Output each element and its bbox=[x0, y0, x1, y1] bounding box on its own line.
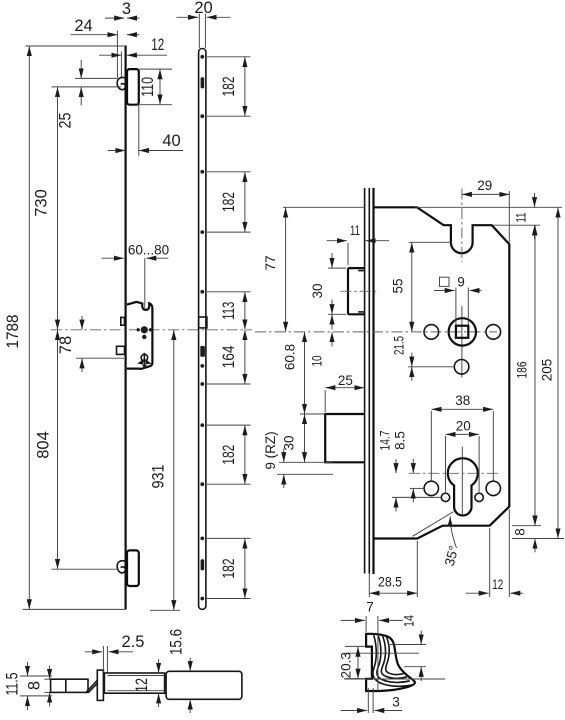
small hole left bbox=[441, 493, 449, 501]
dim 60...80 bbox=[102, 257, 124, 259]
rail top end line bbox=[25, 45, 124, 47]
bottom hook slot bbox=[201, 559, 205, 570]
svg-text:12: 12 bbox=[151, 36, 164, 54]
svg-text:20.3: 20.3 bbox=[339, 652, 354, 678]
latch slot bbox=[199, 317, 207, 328]
ornament wing left bbox=[137, 359, 143, 364]
top hook bolt curl bbox=[117, 77, 125, 89]
svg-text:182: 182 bbox=[220, 445, 238, 465]
dim 8 (outside arrows) bbox=[49, 666, 51, 680]
svg-text:40: 40 bbox=[162, 132, 180, 150]
svg-text:30: 30 bbox=[282, 435, 297, 450]
vertical centerline cylinder bbox=[461, 447, 463, 516]
dim 38 ext lines bbox=[430, 411, 432, 481]
dim 7 ext bbox=[365, 616, 367, 632]
dim 730 bbox=[57, 87, 59, 330]
svg-text:113: 113 bbox=[220, 302, 238, 320]
svg-text:29: 29 bbox=[477, 178, 492, 193]
screw dots bbox=[200, 55, 204, 59]
laminate curve 1 bbox=[373, 634, 413, 686]
dim 12 (outside arrows) bbox=[158, 659, 160, 673]
dim 38 bbox=[432, 408, 494, 410]
dim 110 bbox=[139, 68, 172, 70]
deadbolt tab on rail bbox=[117, 346, 125, 354]
dim 9 square bbox=[434, 290, 455, 292]
dim 182 no.4 bbox=[244, 539, 246, 599]
dim 3 bottom bbox=[341, 710, 367, 712]
dim 164 bbox=[244, 330, 246, 384]
rail bottom end line bbox=[23, 608, 126, 610]
vertical centerline cup bbox=[461, 189, 463, 263]
svg-text:730: 730 bbox=[33, 189, 51, 217]
svg-text:9: 9 bbox=[457, 275, 465, 290]
ref line top bbox=[20, 675, 52, 677]
svg-text:11.5: 11.5 bbox=[4, 673, 22, 696]
inner step line bbox=[344, 652, 419, 654]
top pocket bbox=[348, 268, 365, 314]
svg-text:25: 25 bbox=[57, 113, 75, 129]
dim 931 bbox=[150, 609, 180, 611]
dim 9 square ext lines bbox=[455, 288, 457, 326]
svg-text:186: 186 bbox=[515, 362, 530, 379]
dim 8.5 (outside arrows) bbox=[412, 459, 414, 473]
dim 113 bbox=[244, 292, 246, 330]
dim 78 bbox=[76, 357, 124, 359]
rail (side view main vertical line) bbox=[124, 46, 126, 610]
faceplate edge lines (3 vertical) bbox=[364, 188, 366, 574]
SECTION: front view faceplate bbox=[150, 0, 251, 610]
ref line bottom hook (804) bbox=[51, 568, 118, 570]
latch tab on rail bbox=[121, 317, 125, 325]
dim 20.3 (inside arrows) bbox=[357, 647, 359, 679]
dim 14.7 (outside arrows) bbox=[395, 459, 397, 473]
ornament tip bbox=[142, 365, 147, 368]
deadbolt slot bbox=[200, 346, 205, 357]
dim 205 bbox=[512, 538, 564, 540]
cylinder hole right bbox=[486, 481, 500, 495]
svg-text:14.7: 14.7 bbox=[378, 431, 393, 451]
svg-text:3: 3 bbox=[392, 695, 400, 710]
svg-text:15.6: 15.6 bbox=[168, 629, 186, 655]
dim 11 top pocket bbox=[327, 240, 347, 242]
bar block bbox=[166, 671, 242, 699]
dim 12 bottom ext lines bbox=[489, 528, 491, 597]
svg-text:12: 12 bbox=[133, 678, 151, 692]
svg-text:11: 11 bbox=[514, 213, 529, 223]
dim 14 ref lines bbox=[390, 644, 426, 646]
dim 10 bbox=[331, 300, 333, 315]
182 chain ext lines bbox=[207, 56, 251, 58]
faceplate outline (stadium) bbox=[199, 49, 206, 610]
dim 12 bbox=[99, 54, 121, 56]
dim 14 (outside arrows) bbox=[420, 631, 422, 645]
svg-text:30: 30 bbox=[310, 283, 325, 298]
dim 2.5 bbox=[85, 651, 102, 653]
dim 8 right (outside arrows) bbox=[534, 512, 536, 526]
ref line bottom bbox=[20, 695, 52, 697]
dim 25 bottom pocket bbox=[324, 390, 326, 412]
bottom hook bolt curl bbox=[117, 561, 125, 573]
ext notch plane right bbox=[492, 224, 540, 226]
svg-text:2.5: 2.5 bbox=[122, 633, 145, 651]
dim 186 bbox=[512, 525, 541, 527]
svg-text:20: 20 bbox=[456, 419, 471, 434]
follower bbox=[449, 318, 476, 345]
laminate curve 4 bbox=[386, 637, 405, 675]
dim 20 bbox=[177, 16, 199, 18]
svg-text:38: 38 bbox=[455, 393, 470, 408]
svg-text:10: 10 bbox=[310, 356, 325, 367]
bottom pocket bbox=[325, 414, 364, 462]
svg-text:205: 205 bbox=[540, 359, 555, 382]
dim 40 bbox=[138, 105, 140, 156]
svg-text:60.8: 60.8 bbox=[283, 344, 298, 370]
latch tail bbox=[51, 679, 88, 692]
svg-text:25: 25 bbox=[338, 373, 353, 388]
svg-text:3: 3 bbox=[122, 0, 131, 18]
dim 30 top pocket bbox=[328, 267, 346, 269]
svg-text:14: 14 bbox=[402, 615, 417, 627]
follower hole below bbox=[454, 360, 469, 375]
top hook slot bbox=[201, 77, 205, 88]
dim 7 bbox=[341, 619, 365, 621]
dim 28.5 bbox=[370, 592, 418, 594]
svg-text:931: 931 bbox=[150, 465, 168, 489]
follower dot bbox=[141, 326, 148, 333]
svg-text:8.5: 8.5 bbox=[392, 431, 407, 450]
dim 20 ext lines bbox=[445, 436, 447, 492]
square symbol for 9 bbox=[440, 277, 450, 286]
ornament circle bbox=[141, 354, 148, 361]
extension line for 12 bbox=[120, 52, 122, 79]
svg-text:55: 55 bbox=[390, 278, 405, 293]
cylinder hole left bbox=[424, 481, 438, 495]
follower hole left bbox=[424, 325, 439, 340]
dim 11.5 (outside arrows) bbox=[27, 662, 29, 676]
dim 60.8 bbox=[300, 413, 325, 415]
svg-text:28.5: 28.5 bbox=[378, 575, 402, 590]
latch cross-section outline bbox=[366, 634, 415, 691]
cylinder horizontal centerline bbox=[409, 472, 498, 474]
cylinder euro profile bbox=[448, 458, 478, 515]
svg-text:20: 20 bbox=[194, 0, 212, 17]
lower ref line bbox=[344, 678, 445, 680]
dim 182 no.3 bbox=[244, 425, 246, 484]
dim 20 bbox=[446, 433, 479, 435]
latch bevel lines bbox=[86, 680, 97, 692]
plate lines (2.5) bbox=[102, 646, 104, 673]
dim 9 (RZ) bbox=[277, 473, 333, 475]
laminate curve 3 bbox=[381, 636, 407, 679]
follower side dot right bbox=[149, 328, 152, 331]
latch tail divider bbox=[65, 679, 67, 692]
dim 20 ext lines bbox=[198, 14, 200, 49]
svg-text:182: 182 bbox=[220, 559, 238, 579]
back face line bbox=[377, 616, 379, 691]
dim 25 (outside arrows) bbox=[80, 60, 82, 78]
dim 55 bbox=[409, 241, 452, 243]
center gear case (side view) bbox=[127, 302, 152, 369]
SECTION: right main lock case view bbox=[255, 178, 564, 597]
dim 20.3 ref lines bbox=[345, 645, 366, 647]
svg-text:182: 182 bbox=[220, 192, 238, 212]
latch flange on plate bbox=[97, 670, 103, 700]
SECTION: left side view bbox=[4, 0, 252, 609]
svg-text:1788: 1788 bbox=[4, 315, 22, 349]
svg-text:77: 77 bbox=[263, 255, 278, 270]
follower square 9mm bbox=[456, 326, 468, 338]
dim 21.5 (outside arrows) bbox=[408, 366, 454, 368]
dim 29 bbox=[508, 191, 510, 244]
follower side dot left bbox=[137, 328, 140, 331]
dim 24 bbox=[70, 34, 117, 36]
svg-text:24: 24 bbox=[74, 17, 92, 35]
ext top edge right bbox=[415, 206, 562, 208]
dim 30 bottom pocket bbox=[279, 461, 333, 463]
follower hole right bbox=[486, 325, 501, 340]
bottom hook housing bbox=[127, 550, 139, 586]
svg-text:182: 182 bbox=[220, 77, 238, 97]
SECTION: bottom-left latch detail bbox=[4, 629, 242, 713]
top hook housing bbox=[127, 69, 139, 105]
svg-text:8: 8 bbox=[513, 528, 528, 536]
dim 15.6 (outside arrows) bbox=[189, 658, 191, 672]
svg-text:60...80: 60...80 bbox=[128, 243, 169, 258]
svg-text:9 (RZ): 9 (RZ) bbox=[263, 431, 278, 469]
dim 11 right (outside arrows) bbox=[534, 193, 536, 207]
dim 28.5 ext line bbox=[368, 574, 370, 598]
main centerline (follower axis) bbox=[255, 331, 497, 333]
svg-text:21.5: 21.5 bbox=[392, 336, 407, 355]
ornament wing right bbox=[146, 359, 152, 364]
follower lower dot bbox=[142, 335, 146, 339]
centerline left view bbox=[51, 329, 252, 331]
SECTION: bottom-right latch cross-section bbox=[339, 600, 446, 714]
ornament stem bbox=[143, 353, 145, 367]
svg-text:7: 7 bbox=[366, 600, 374, 615]
small hole right bbox=[475, 493, 483, 501]
dim 12 bottom (outside arrows) bbox=[466, 592, 489, 594]
angle 35 arc with arrow bbox=[450, 517, 456, 549]
angle 35 extension line bbox=[413, 512, 454, 537]
svg-text:78: 78 bbox=[57, 336, 75, 354]
dim 3 bbox=[105, 17, 124, 19]
dim 3 ext lines bbox=[367, 688, 369, 713]
top pocket inner ticks bbox=[358, 270, 364, 272]
case body block bbox=[104, 673, 164, 693]
case body inner lines bbox=[107, 675, 164, 677]
svg-text:110: 110 bbox=[139, 77, 157, 97]
lock case outline bbox=[374, 207, 510, 538]
laminate curve 2 bbox=[377, 635, 410, 683]
dim 1788 bbox=[28, 46, 30, 609]
dim 182 no.1 bbox=[244, 57, 246, 116]
svg-text:12: 12 bbox=[492, 577, 503, 592]
svg-text:804: 804 bbox=[35, 431, 53, 459]
extension line for 24 bbox=[116, 31, 118, 78]
dim 77 bbox=[285, 208, 287, 332]
vertical centerline follower bbox=[461, 306, 463, 378]
ext pocket left top bbox=[347, 243, 349, 265]
svg-text:164: 164 bbox=[220, 345, 238, 368]
backset leader 60...80 bbox=[144, 258, 146, 309]
latch tail edge ext lines bbox=[44, 678, 51, 680]
dim 182 no.2 bbox=[244, 172, 246, 232]
top pocket centerline bbox=[340, 290, 378, 292]
ref line hook center (730 / 25) bbox=[51, 86, 121, 88]
svg-text:11: 11 bbox=[350, 223, 360, 238]
ref line hook top (25) bbox=[75, 77, 118, 79]
svg-text:8: 8 bbox=[26, 681, 44, 690]
dim 804 bbox=[57, 330, 59, 569]
